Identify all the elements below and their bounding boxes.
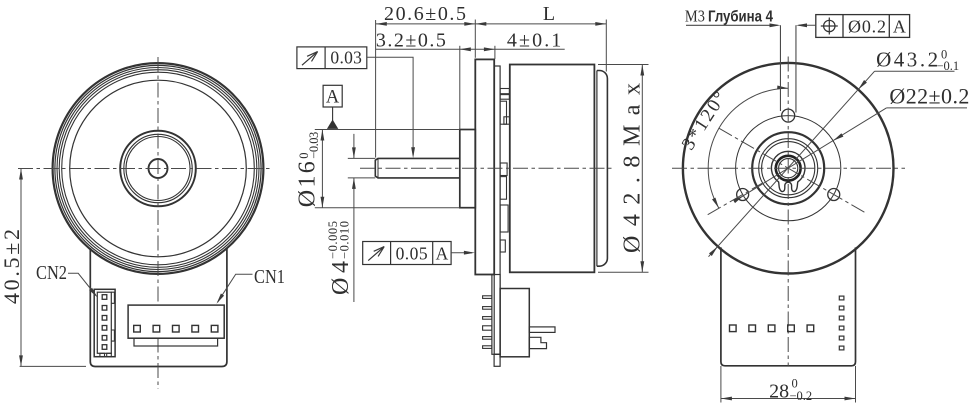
side view: CN2 pins	[483, 296, 492, 299]
svg-text:M3: M3	[685, 7, 705, 26]
rear view: horizontal centerline	[672, 167, 905, 169]
dimension 28 0/-0.2	[721, 366, 856, 403]
side view: mounting flange	[475, 59, 494, 274]
rear view: CN1 pins	[730, 325, 737, 332]
svg-text:Ø4: Ø4	[328, 261, 354, 295]
leader from 0.03 frame to shaft	[367, 57, 413, 155]
side view: PCB components	[500, 89, 509, 94]
rear view: bearing boss circles	[752, 132, 824, 204]
tolerance frame circular-runout 0.03	[297, 47, 367, 69]
svg-text:Ø43.2: Ø43.2	[876, 48, 938, 72]
side view: motor body	[510, 65, 595, 273]
rear view: body outline	[721, 247, 856, 365]
rear view: shaft bore	[776, 156, 801, 181]
svg-text:CN1: CN1	[254, 266, 285, 288]
svg-text:Ø22±0.2: Ø22±0.2	[889, 84, 969, 109]
side view: PCB	[494, 66, 500, 354]
svg-text:−0.010: −0.010	[337, 221, 351, 259]
svg-text:A: A	[436, 244, 449, 264]
svg-text:−0.03: −0.03	[307, 132, 321, 159]
svg-text:20.6±0.5: 20.6±0.5	[384, 3, 466, 25]
svg-text:4±0.1: 4±0.1	[507, 30, 561, 52]
rear view: diagonal centerline lower-left hole	[708, 183, 762, 214]
side view: shaft chamfer line	[377, 159, 379, 178]
left view: inner face circle	[70, 80, 247, 257]
left view: horizontal centerline	[18, 168, 273, 170]
svg-text:CN2: CN2	[36, 262, 67, 284]
M3 hole projection lines	[780, 25, 796, 112]
angular dimension 3*120°	[708, 88, 788, 208]
connector CN2 housing	[94, 289, 115, 356]
left view: motor front outer rim circles	[53, 63, 264, 274]
svg-text:A: A	[326, 87, 340, 107]
rear view: outer circle	[683, 63, 894, 274]
side view: horizontal centerline	[360, 167, 612, 169]
rear view: diagonal centerline lower-right hole	[719, 128, 865, 212]
tolerance frame position Ø0.2 A	[816, 15, 910, 38]
left view: shaft hole circle	[149, 159, 168, 178]
svg-text:L: L	[543, 3, 555, 25]
dimension L	[475, 22, 486, 26]
dimension 40.5±2	[20, 365, 86, 367]
dimension Ø4 -0.005/-0.010	[348, 157, 376, 159]
rear view: bolt circle Ø22	[736, 116, 841, 221]
left view: center boss circles	[120, 131, 196, 207]
svg-text:Ø0.2: Ø0.2	[848, 16, 886, 36]
svg-text:−0.2: −0.2	[790, 389, 813, 403]
side view: front boss	[460, 130, 476, 208]
dimension Ø16 0/-0.03	[315, 129, 460, 131]
dimension 3.2±0.5	[376, 48, 565, 50]
tolerance frame circular-runout 0.05 A	[363, 242, 451, 265]
svg-text:Ø16: Ø16	[295, 161, 321, 207]
side view: rear cap	[596, 71, 598, 267]
left view: vertical centerline	[157, 57, 159, 389]
svg-text:0.03: 0.03	[330, 47, 362, 67]
rear view: M3 holes	[782, 109, 795, 122]
connector CN2 pins	[102, 295, 107, 300]
svg-text:A: A	[893, 16, 906, 36]
rear view: E-clip retainer	[771, 151, 805, 191]
side view: shaft	[375, 158, 460, 178]
connector CN1 pins	[134, 325, 141, 332]
dimension Ø42.8Max	[598, 64, 649, 66]
left view: body outline	[90, 248, 227, 367]
connector CN1 housing	[128, 305, 224, 338]
rear view: CN2 pins	[839, 296, 844, 300]
rear view: vertical centerline	[787, 57, 789, 367]
dimension 20.6±0.5	[376, 23, 607, 25]
side view: CN1 housing	[500, 289, 529, 357]
datum A symbol	[323, 85, 342, 107]
svg-text:28: 28	[769, 381, 789, 403]
svg-text:Глубина 4: Глубина 4	[708, 9, 773, 26]
svg-text:0.05: 0.05	[396, 244, 428, 264]
